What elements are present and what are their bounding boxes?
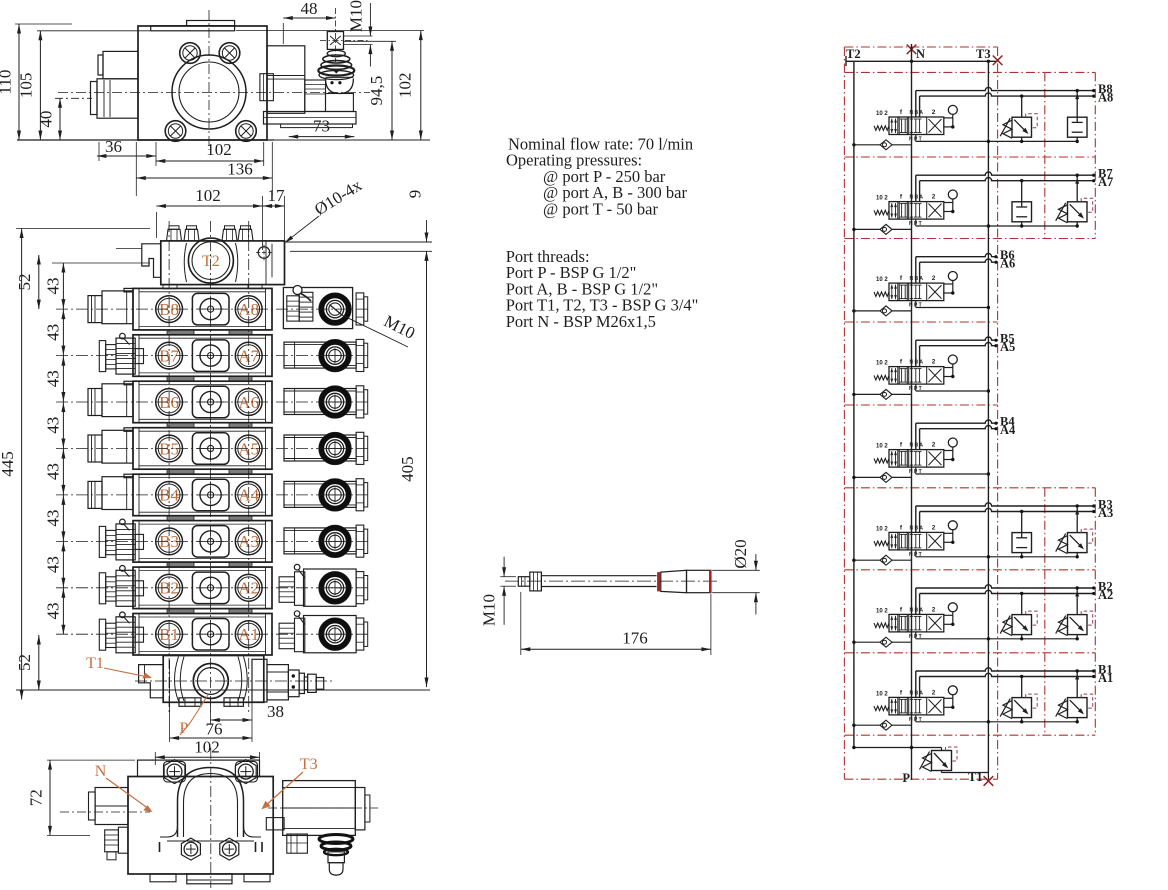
svg-text:2: 2	[932, 109, 936, 116]
svg-text:A1: A1	[1098, 671, 1113, 685]
svg-text:136: 136	[227, 160, 253, 179]
svg-text:43: 43	[43, 510, 62, 527]
svg-text:10 2: 10 2	[876, 608, 888, 614]
svg-text:A5: A5	[1000, 340, 1015, 354]
svg-text:10 2: 10 2	[876, 361, 888, 367]
svg-text:52: 52	[15, 274, 34, 291]
svg-text:T2: T2	[846, 47, 861, 61]
svg-text:43: 43	[44, 370, 63, 387]
svg-text:94,5: 94,5	[367, 76, 386, 106]
svg-text:N B A: N B A	[910, 607, 924, 613]
svg-text:17: 17	[268, 186, 286, 205]
svg-text:43: 43	[43, 324, 62, 341]
svg-text:A8: A8	[1098, 91, 1113, 105]
svg-text:102: 102	[195, 186, 221, 205]
svg-text:A6: A6	[1000, 257, 1015, 271]
svg-text:10 2: 10 2	[876, 691, 888, 697]
svg-text:36: 36	[105, 137, 122, 156]
svg-text:2: 2	[932, 689, 936, 696]
svg-text:N B A: N B A	[910, 443, 924, 449]
svg-text:43: 43	[43, 603, 62, 620]
svg-text:10 2: 10 2	[876, 526, 888, 532]
svg-text:10 2: 10 2	[876, 111, 888, 117]
svg-text:Ø20: Ø20	[731, 539, 750, 568]
svg-text:N B A: N B A	[910, 525, 924, 531]
svg-text:73: 73	[313, 117, 330, 136]
svg-text:@ port T - 50 bar: @ port T - 50 bar	[543, 199, 658, 218]
svg-text:T3: T3	[300, 756, 318, 773]
svg-text:T1: T1	[968, 770, 983, 784]
svg-text:A3: A3	[1098, 506, 1113, 520]
svg-text:M10: M10	[480, 594, 499, 626]
svg-text:P: P	[902, 771, 910, 785]
svg-text:N: N	[95, 763, 107, 780]
svg-text:T3: T3	[976, 47, 991, 61]
svg-text:52: 52	[15, 654, 34, 671]
svg-text:43: 43	[43, 417, 62, 434]
svg-text:38: 38	[267, 702, 284, 721]
svg-text:2: 2	[932, 194, 936, 201]
svg-text:N B A: N B A	[910, 276, 924, 282]
svg-text:Port N - BSP M26x1,5: Port N - BSP M26x1,5	[506, 312, 656, 331]
svg-text:102: 102	[206, 140, 232, 159]
svg-text:A2: A2	[1098, 588, 1113, 602]
svg-text:405: 405	[398, 456, 417, 482]
svg-text:176: 176	[622, 629, 648, 648]
svg-text:N B A: N B A	[910, 110, 924, 116]
svg-text:72: 72	[27, 789, 46, 806]
svg-text:2: 2	[932, 359, 936, 366]
svg-text:N B A: N B A	[910, 690, 924, 696]
svg-text:40: 40	[37, 111, 56, 128]
svg-text:48: 48	[301, 0, 318, 18]
svg-text:10 2: 10 2	[876, 444, 888, 450]
svg-text:445: 445	[0, 451, 17, 477]
svg-text:N: N	[916, 47, 925, 61]
svg-text:102: 102	[194, 738, 220, 757]
svg-text:10 2: 10 2	[876, 196, 888, 202]
svg-text:M10: M10	[347, 0, 366, 32]
svg-text:9: 9	[406, 190, 425, 199]
svg-text:76: 76	[206, 720, 223, 739]
svg-text:A7: A7	[1098, 175, 1113, 189]
svg-text:43: 43	[44, 463, 63, 480]
svg-text:N B A: N B A	[910, 360, 924, 366]
svg-text:10 2: 10 2	[876, 277, 888, 283]
svg-text:43: 43	[44, 556, 63, 573]
svg-text:102: 102	[396, 73, 415, 99]
svg-text:2: 2	[932, 275, 936, 282]
svg-text:43: 43	[44, 278, 63, 295]
svg-text:N B A: N B A	[910, 195, 924, 201]
svg-text:2: 2	[932, 606, 936, 613]
svg-text:105: 105	[17, 73, 36, 99]
svg-text:110: 110	[0, 70, 15, 95]
svg-text:A4: A4	[1000, 423, 1016, 437]
svg-text:2: 2	[932, 524, 936, 531]
svg-text:T1: T1	[86, 655, 104, 672]
svg-text:2: 2	[932, 442, 936, 449]
